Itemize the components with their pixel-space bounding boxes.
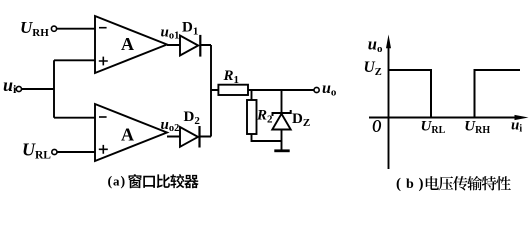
svg-text:b: b [406, 177, 414, 192]
svg-text:(: ( [396, 176, 401, 192]
svg-text:A: A [121, 34, 134, 54]
svg-text:): ) [121, 175, 126, 190]
svg-text:): ) [419, 176, 424, 192]
svg-text:a: a [113, 174, 120, 189]
svg-text:A: A [121, 124, 134, 144]
svg-text:(: ( [108, 175, 113, 190]
svg-text:O: O [372, 116, 381, 136]
